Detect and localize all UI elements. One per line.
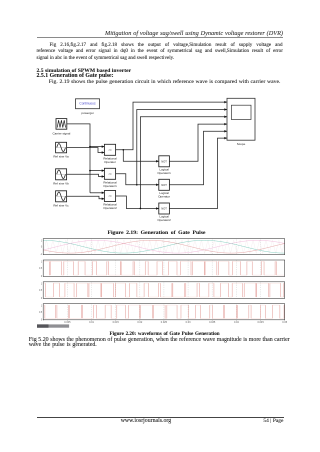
body paragraph line 2 — [37, 49, 283, 54]
reference sine Vb (pink) — [43, 240, 285, 253]
Relational Operator1 block — [104, 168, 115, 179]
y-axis tick labels — [39, 240, 43, 321]
svg-text:Operator1: Operator1 — [157, 171, 171, 175]
source block: Ref sine Va — [56, 142, 67, 153]
svg-text:<=: <= — [108, 148, 112, 152]
svg-text:0.5: 0.5 — [39, 268, 43, 270]
svg-text:0: 0 — [41, 319, 43, 321]
axes frame subplot 4 — [43, 304, 285, 320]
svg-text:0.04: 0.04 — [234, 321, 239, 324]
svg-text:0.035: 0.035 — [209, 321, 216, 324]
svg-text:NOT: NOT — [161, 183, 167, 187]
body paragraph line 1 — [50, 43, 283, 48]
svg-text:0.015: 0.015 — [113, 321, 120, 324]
svg-text:<=: <= — [108, 172, 112, 176]
wire: Ref sine Vc to Relational Operator2 — [67, 196, 105, 198]
svg-text:Operator2: Operator2 — [103, 206, 117, 210]
Scope block — [227, 98, 255, 140]
svg-text:0.005: 0.005 — [64, 321, 71, 324]
footer rule — [37, 416, 284, 419]
svg-text:0.025: 0.025 — [161, 321, 168, 324]
source block: Ref sine Vb — [56, 169, 67, 180]
wire: Logical Operator1 out to scope input 4 — [169, 124, 227, 161]
Logical Operator1 block (NOT) — [159, 156, 170, 167]
axes frame subplot 3 — [43, 282, 285, 299]
svg-text:1: 1 — [41, 305, 43, 307]
svg-text:0.045: 0.045 — [257, 321, 264, 324]
svg-text:0.02: 0.02 — [137, 321, 142, 324]
svg-text:0.05: 0.05 — [282, 321, 287, 324]
svg-text:Scope: Scope — [237, 142, 246, 146]
body paragraph line 3 — [37, 56, 175, 61]
x-axis tick labels — [64, 321, 287, 324]
svg-text:<=: <= — [108, 194, 112, 198]
reference sine Vc (red) — [43, 240, 285, 253]
svg-text:Continuous: Continuous — [79, 102, 96, 106]
header rule — [37, 36, 283, 39]
footer page number — [263, 419, 283, 424]
wire: branch to Logical Operator1 — [123, 150, 159, 162]
Relational Operator2 block — [104, 191, 115, 202]
caption figure 2.20 — [110, 332, 220, 337]
page header (running title) — [105, 31, 283, 37]
closing paragraph line 1 — [29, 338, 290, 344]
wire: branch to scope input 2 — [137, 110, 227, 185]
gate pulse train subplot 4 — [43, 305, 285, 318]
source block: Carrier signal — [56, 119, 67, 130]
svg-text:1: 1 — [41, 240, 43, 242]
svg-text:0.5: 0.5 — [39, 290, 43, 292]
heading 2.5 — [37, 69, 132, 75]
intro line for figure 2.19 — [49, 80, 281, 86]
svg-text:1: 1 — [41, 283, 43, 285]
svg-text:Carrier signal: Carrier signal — [52, 131, 70, 135]
svg-text:0: 0 — [41, 276, 43, 278]
svg-text:1: 1 — [41, 262, 43, 264]
carrier triangle wave subplot 1 — [43, 240, 285, 253]
wire: Relational Operator1 out to Logical Operator — [116, 174, 159, 185]
Relational Operator block — [104, 144, 115, 155]
junction carrier/RelOp1 — [89, 170, 91, 172]
Logical Operator2 block (NOT) — [159, 203, 170, 214]
gate pulse train subplot 2 — [43, 261, 285, 275]
junction carrier/RelOp — [89, 146, 91, 148]
wire: Ref sine Va to Relational Operator — [67, 148, 105, 153]
wire: Relational Operator2 out to Logical Operator2 — [116, 196, 159, 209]
svg-text:Operator: Operator — [158, 194, 170, 198]
svg-text:0.5: 0.5 — [39, 312, 43, 314]
gridlines subplot 2 — [67, 260, 260, 277]
axes frame subplot 2 — [43, 260, 285, 277]
svg-text:powergui: powergui — [81, 111, 94, 115]
footer journal url — [121, 419, 171, 425]
axes frame subplot 1 — [43, 239, 285, 255]
svg-text:Ref sine Va: Ref sine Va — [53, 154, 69, 158]
svg-text:Operator2: Operator2 — [157, 218, 171, 222]
svg-text:Operator: Operator — [104, 160, 116, 164]
heading 2.5.1 — [37, 74, 114, 80]
svg-text:Operator1: Operator1 — [103, 184, 117, 188]
gridlines subplot 3 — [67, 282, 260, 299]
svg-text:NOT: NOT — [161, 207, 167, 211]
svg-text:Ref sine Vb: Ref sine Vb — [53, 181, 69, 185]
svg-text:-1: -1 — [40, 254, 43, 256]
time offset status bar — [37, 324, 69, 327]
gridlines subplot 4 — [67, 304, 260, 320]
svg-text:Ref sine Vc: Ref sine Vc — [53, 203, 69, 207]
wire: Logical Operator2 out to scope input 6 — [169, 138, 227, 208]
caption figure 2.19 — [108, 231, 206, 237]
svg-text:0: 0 — [41, 247, 43, 249]
svg-text:0.03: 0.03 — [186, 321, 191, 324]
gridlines subplot 1 — [67, 239, 260, 255]
svg-text:NOT: NOT — [161, 160, 167, 164]
wire: Ref sine Vb to Relational Operator1 — [67, 174, 105, 176]
x-axis tick marks — [43, 319, 285, 322]
wire: Relational Operator out to scope input 1 — [116, 102, 227, 150]
powergui block (Continuous) — [76, 99, 100, 109]
closing paragraph line 2 — [29, 343, 97, 349]
svg-text:0: 0 — [41, 298, 43, 300]
wire: Logical Operator out to scope input 5 — [169, 131, 227, 185]
wire: branch to scope input 3 — [140, 117, 227, 209]
source block: Ref sine Vc — [56, 191, 67, 202]
wire: carrier to relational operators — [67, 124, 90, 193]
Logical Operator block (NOT) — [159, 179, 170, 190]
svg-text:0.01: 0.01 — [89, 321, 94, 324]
reference sine Va (teal) — [43, 240, 285, 253]
gate pulse train subplot 3 — [43, 283, 285, 297]
